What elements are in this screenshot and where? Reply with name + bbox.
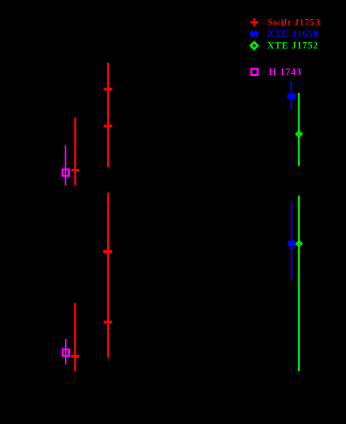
data point: XTE J1650 asterisk marker 1 (287, 94, 296, 100)
error bar: H 1743 upper (65, 145, 67, 185)
error bar: H 1743 lower (65, 339, 67, 365)
error bar: Swift J1753 left upper (74, 118, 76, 186)
data point: XTE J1650 asterisk marker 2 (287, 241, 296, 247)
data point: XTE J1752 open diamond marker 2 (297, 241, 302, 246)
data point: Swift J1753 plus marker 1 (104, 88, 113, 91)
svg-text:H 1743: H 1743 (269, 68, 302, 78)
error bar: XTE J1752 lower (298, 196, 300, 371)
error bar: XTE J1650 upper (290, 81, 292, 109)
data point: Swift J1753 plus marker 2 (104, 125, 113, 128)
data point: XTE J1752 open diamond marker 1 (296, 131, 301, 136)
error bar: XTE J1650 lower (291, 201, 293, 281)
data point: Swift J1753 plus marker 6 (71, 355, 79, 358)
legend marker: magenta open square (H 1743) (251, 69, 257, 75)
data point: Swift J1753 plus marker 5 (71, 169, 79, 171)
data point: H 1743 open square marker 2 (63, 349, 69, 355)
svg-text:Swift J1753: Swift J1753 (268, 19, 320, 29)
error bar: Swift J1753 tall lower segment (107, 193, 109, 358)
data point: Swift J1753 plus marker 4 (104, 321, 112, 324)
svg-text:XTE J1752: XTE J1752 (267, 42, 318, 52)
legend marker: red plus (Swift J1753) (250, 18, 258, 26)
legend marker: green diamond (XTE J1752) (251, 42, 258, 49)
svg-text:XTE J1650: XTE J1650 (267, 30, 318, 40)
data point: Swift J1753 plus marker 3 (103, 250, 112, 253)
legend marker: blue asterisk (XTE J1650) (250, 31, 258, 37)
error bar: Swift J1753 tall upper segment (107, 63, 109, 168)
error bar: Swift J1753 left lower (74, 303, 76, 371)
data point: H 1743 open square marker 1 (63, 169, 69, 175)
error bar: XTE J1752 upper (298, 93, 300, 166)
